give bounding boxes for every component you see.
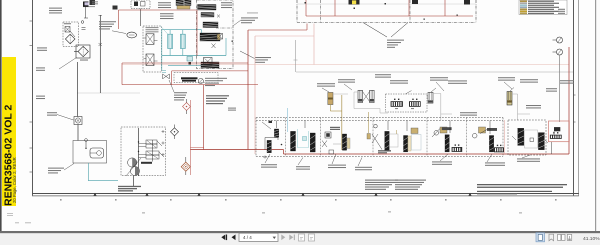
yellow spine strip bbox=[2, 57, 16, 206]
wire faint pink divider bbox=[504, 120, 506, 154]
right margin strip bbox=[596, 0, 600, 231]
label MOTOR OIL TEMPERATURE PLATE bbox=[49, 8, 62, 14]
label HOIST GP bbox=[460, 112, 477, 115]
swing drive motor 2 bbox=[409, 99, 421, 107]
wire gray hook 1 bbox=[380, 109, 388, 114]
pump compensator 1 bbox=[146, 140, 162, 148]
wire red drop x197 bbox=[196, 10, 198, 56]
group7 block bbox=[494, 145, 504, 153]
group6 circle bbox=[434, 131, 439, 136]
teal bowtie marks bbox=[162, 71, 166, 73]
toolbar page input box bbox=[239, 233, 278, 241]
wire olive drop g4 bbox=[368, 112, 370, 133]
part list block 2 bbox=[395, 180, 426, 190]
pump box side ticks bbox=[162, 130, 165, 156]
wire compensator stubs bbox=[139, 144, 147, 158]
frame bottom border bbox=[32, 193, 579, 196]
group5 spool bbox=[404, 136, 408, 152]
accumulator block bbox=[554, 127, 560, 135]
pump dashed box bbox=[121, 127, 166, 176]
ripper marks bbox=[512, 136, 548, 143]
control box glyph 3 bbox=[464, 0, 470, 5]
view mode scroll icon bbox=[567, 234, 571, 240]
label cyl row 9 bbox=[560, 80, 574, 83]
back pressure valve dashed box bbox=[63, 22, 79, 47]
label group4 bbox=[355, 158, 372, 171]
group6 stub bbox=[449, 121, 451, 134]
wire strainer to tank bbox=[77, 125, 79, 141]
wire tan cyl1 bbox=[330, 105, 341, 111]
label group3 bbox=[328, 154, 346, 168]
label ripper bbox=[517, 155, 540, 162]
wire red riser 2 bbox=[190, 85, 203, 150]
group6 tan box bbox=[440, 127, 447, 133]
group1 leader bbox=[262, 121, 272, 129]
label cyl row 1 bbox=[317, 83, 335, 92]
label group2 bbox=[296, 158, 310, 170]
cylinder 4 bbox=[428, 88, 436, 103]
motor circle bbox=[198, 78, 203, 83]
cylinder 5 bbox=[507, 88, 514, 106]
group5 tan box bbox=[411, 128, 418, 134]
main pump circle bbox=[128, 158, 137, 167]
view mode bookmark icon bbox=[549, 234, 554, 241]
glyphs right of cooler bbox=[217, 2, 232, 17]
view mode single page selected bbox=[536, 233, 545, 242]
label cyl row 5 bbox=[430, 77, 448, 91]
svg-text:4 / 4: 4 / 4 bbox=[243, 235, 252, 240]
wire pump drop bbox=[133, 176, 135, 186]
ripper dashed box bbox=[508, 120, 546, 155]
valve bank dashed box bbox=[256, 118, 503, 157]
part list block 1 bbox=[365, 180, 398, 190]
wire faint red supply rail bbox=[122, 64, 569, 66]
label steer text 1 bbox=[205, 78, 227, 86]
label VALVE GP CONTROL PILOT bbox=[241, 17, 258, 23]
label inside box bbox=[64, 23, 71, 24]
wire pump riser bbox=[152, 140, 154, 162]
label in motor box bbox=[181, 77, 198, 81]
ripper light box bbox=[525, 130, 538, 148]
temperature plate component bbox=[83, 0, 95, 7]
check valve diamond black bbox=[171, 125, 179, 140]
cooler valve block 1 bbox=[198, 5, 217, 11]
return filter box bbox=[76, 45, 90, 58]
spine title RENR3568-02 VOL 2 bbox=[2, 104, 14, 206]
accumulator red box bbox=[549, 121, 570, 142]
accumulator ellipse bbox=[127, 32, 137, 38]
label HOSE GP bbox=[526, 105, 541, 108]
motor dashed box bbox=[174, 73, 218, 83]
group5 light col bbox=[408, 135, 421, 152]
accumulator castle bbox=[550, 132, 562, 154]
cooler valve block 4 bbox=[200, 33, 220, 41]
pilot valve spool 1 bbox=[144, 27, 159, 44]
oil cooler dash-dot box bbox=[197, 0, 234, 69]
oil sampling dashed box bbox=[131, 0, 150, 9]
label TANK OIL FL bbox=[47, 112, 57, 115]
toolbar last page button disabled bbox=[289, 235, 295, 241]
leader to filter bbox=[59, 58, 77, 70]
group4 stub bbox=[387, 121, 389, 131]
label 2X small bbox=[228, 108, 236, 111]
group3 cross arrows bbox=[322, 141, 341, 148]
label VALVE GP CONTROL 2X 3X bbox=[387, 40, 404, 48]
wire gauge drop bbox=[559, 55, 561, 122]
group6 leader bbox=[432, 127, 452, 137]
back pressure valve bbox=[65, 27, 70, 33]
wire olive drop g3 bbox=[341, 95, 343, 150]
cooler bypass spool pair bbox=[176, 0, 191, 6]
wire olive drop g6 bbox=[433, 94, 441, 121]
wire gray drop bbox=[294, 40, 298, 72]
toolbar background bbox=[0, 233, 600, 245]
label cyl row 8 bbox=[520, 79, 538, 82]
wire teal link bbox=[202, 30, 227, 56]
frame right border bbox=[573, 0, 579, 196]
label cyl row 6 bbox=[448, 80, 467, 83]
solenoid coil 2 bbox=[180, 30, 185, 49]
wire gray hook 2 bbox=[441, 113, 452, 115]
riser tick X bbox=[99, 16, 103, 47]
toolbar prev button bbox=[232, 235, 236, 241]
wire gray hook 3 bbox=[518, 113, 531, 115]
frame bottom zone triangles bbox=[93, 193, 471, 196]
wire sampling drop bbox=[140, 9, 142, 27]
wire red pilot supply bbox=[119, 10, 198, 29]
pump text block bbox=[118, 186, 141, 192]
temp plate tick marks bbox=[81, 18, 88, 29]
group1 spool upper bbox=[274, 129, 278, 137]
zoom level text bbox=[583, 236, 600, 242]
label cyl row 4 bbox=[390, 80, 408, 83]
x-mark small bbox=[212, 44, 216, 49]
wire filter drop bbox=[77, 62, 79, 117]
group4 light box bbox=[390, 130, 399, 147]
hydraulic tank box bbox=[73, 141, 107, 164]
steer priority x-box bbox=[204, 58, 213, 66]
toolbar back view icon bbox=[299, 234, 305, 241]
wire teal bowtie drop bbox=[161, 56, 163, 71]
cooler valve block 3 bbox=[203, 22, 218, 28]
pilot valve spool 2 bbox=[144, 54, 158, 66]
wire olive drop g7 bbox=[512, 94, 518, 120]
label FLTR GP RET OIL bbox=[37, 47, 47, 50]
solenoid with yellow flag bbox=[349, 0, 360, 9]
pilot valve dashed box bbox=[143, 26, 162, 72]
pressure gauge 1 bbox=[553, 37, 563, 43]
label TANK GP HYDRAULIC bbox=[48, 168, 64, 174]
wire red mid box bbox=[122, 63, 258, 85]
fluid color legend table bbox=[519, 0, 567, 15]
wire red control drops bbox=[306, 0, 445, 16]
leader to accumulator bbox=[112, 31, 126, 34]
label group6 bbox=[432, 154, 452, 165]
group3 left box bbox=[325, 132, 334, 154]
group3 tan bars bbox=[347, 138, 350, 149]
label MOTOR GP PRESSURE bbox=[174, 92, 187, 100]
group4 circles bbox=[372, 124, 382, 149]
wire temp plate stem bbox=[85, 7, 87, 18]
page left dark border bbox=[0, 0, 2, 233]
teal junction block bbox=[187, 57, 193, 65]
group7 stub bbox=[489, 121, 491, 135]
pump outlet bar bbox=[141, 162, 152, 164]
leader tank oil bbox=[57, 115, 74, 121]
group3 label bbox=[330, 127, 340, 130]
group7 circle bbox=[472, 133, 477, 138]
pump compensator 2 bbox=[146, 151, 164, 159]
notes paragraph bbox=[477, 184, 567, 194]
toolbar forward view icon bbox=[309, 234, 315, 241]
wire light blue drop bbox=[287, 108, 289, 132]
pressure gauge 2 bbox=[553, 49, 563, 55]
arrow in box bbox=[70, 31, 75, 37]
solenoid coil 1 bbox=[168, 30, 173, 49]
label OIL COOLER BYPASS VLV bbox=[158, 2, 171, 8]
wire red control rail bbox=[306, 15, 473, 17]
spine footer marks bbox=[7, 213, 13, 216]
group4 spool bbox=[385, 131, 390, 150]
view mode two page icon bbox=[558, 234, 566, 240]
return filter element bbox=[74, 46, 88, 56]
control box glyph 2 bbox=[412, 0, 418, 4]
x-box symbol bbox=[217, 34, 223, 40]
cooler bypass tan body bbox=[177, 6, 190, 10]
leader bbox=[234, 20, 242, 26]
label group1 bbox=[261, 154, 277, 168]
pointer lines bbox=[363, 23, 408, 38]
svg-text:20 Page, Color 2, RENR: 20 Page, Color 2, RENR bbox=[12, 157, 17, 203]
label HOIST small bbox=[546, 88, 557, 91]
group1 marks bbox=[263, 156, 267, 159]
page footer ghost marks bbox=[15, 211, 522, 223]
valve bank dividers bbox=[286, 118, 467, 157]
label (1+2) bbox=[80, 60, 88, 61]
svg-text:41.10%: 41.10% bbox=[583, 236, 600, 242]
strainer box bbox=[74, 117, 82, 125]
wire light red riser bbox=[189, 100, 191, 175]
relief valve diamond red 2 bbox=[181, 157, 190, 175]
group2 spool left bbox=[291, 131, 296, 151]
cooler valve block 5 bbox=[201, 62, 219, 68]
frame left ticks bbox=[30, 21, 33, 172]
small red source block bbox=[113, 6, 118, 10]
toolbar next button disabled bbox=[281, 235, 285, 241]
wire red bottom rail bbox=[190, 150, 569, 155]
wire teal lower bbox=[162, 30, 201, 66]
page bottom shadow bbox=[0, 231, 600, 233]
cooler box divider bbox=[216, 28, 233, 42]
ripper spool 1 bbox=[518, 128, 524, 145]
page right gray divider bbox=[595, 0, 596, 231]
label PILOT bbox=[92, 1, 98, 4]
group2 spool right bbox=[310, 133, 315, 152]
wire pump axis bbox=[138, 128, 139, 176]
wire gray return rail bbox=[296, 71, 573, 73]
relief valve diamond red 1 bbox=[183, 99, 191, 114]
group1 stub bbox=[276, 121, 278, 129]
label FL RET VLV bbox=[36, 96, 45, 99]
wire teal coil bottoms bbox=[162, 49, 226, 56]
steer part list bbox=[206, 95, 229, 104]
cylinder pair 2a bbox=[358, 90, 363, 102]
frame zone numbers bbox=[60, 199, 557, 201]
swing drive motor 1 bbox=[391, 99, 403, 107]
wire faint top bbox=[297, 3, 476, 5]
ripper spool 2 bbox=[538, 133, 544, 150]
toolbar first page button bbox=[221, 235, 227, 241]
label cyl row 2 bbox=[338, 79, 355, 90]
label group7 bbox=[485, 154, 505, 166]
cylinder pair 2b bbox=[354, 90, 380, 108]
label CO2 ghost bbox=[247, 12, 258, 13]
cooler valve block 2 bbox=[201, 13, 214, 18]
group7 leader bbox=[480, 128, 497, 134]
tank breather bbox=[85, 139, 88, 149]
group7 tan box bbox=[479, 127, 486, 133]
group4 glyph bbox=[367, 134, 370, 140]
swing drive dashed box bbox=[386, 94, 428, 112]
control box dividers bbox=[321, 0, 411, 23]
group1 wires bbox=[265, 138, 282, 151]
swing drive marks bbox=[395, 91, 414, 110]
main control dash-dot box bbox=[297, 0, 476, 23]
label FILTER GP CONTROL VLV RETURN bbox=[160, 13, 174, 19]
group4 label bbox=[378, 150, 391, 153]
wire teal pilot top bbox=[162, 29, 202, 31]
second pump circle bbox=[126, 158, 141, 176]
teal label leader bbox=[160, 26, 168, 35]
label VALVE GP CONTROL lower bbox=[255, 57, 271, 63]
label cyl row 3 bbox=[375, 74, 391, 77]
group7 spool bbox=[489, 136, 493, 152]
wire faint gray y93 bbox=[77, 92, 140, 94]
motor leader bbox=[169, 80, 174, 92]
wire red spine top link bbox=[248, 24, 307, 31]
group2 stub bbox=[304, 121, 306, 129]
leader tank bbox=[64, 164, 74, 171]
control box dots bbox=[305, 2, 458, 20]
bowtie valve bbox=[163, 74, 170, 79]
group1 spool lower bbox=[267, 140, 271, 152]
group3 spool bbox=[342, 134, 346, 150]
label FL BYP VLV bbox=[36, 67, 45, 70]
frame left border bbox=[32, 0, 33, 196]
label ACCUMULATOR GP CONTROL VLV bbox=[99, 21, 116, 29]
tank cylinder bbox=[90, 148, 104, 158]
motor red box bbox=[172, 71, 248, 85]
group6 block bbox=[452, 144, 463, 152]
group2 teal loop bbox=[298, 129, 309, 148]
wire faint red spine bbox=[255, 24, 314, 155]
filter element F1 bbox=[65, 34, 75, 44]
spine subtitle bbox=[12, 157, 17, 203]
frame right ticks bbox=[573, 95, 576, 122]
wire riser x100 bbox=[99, 15, 101, 93]
cylinder tan 1 bbox=[328, 92, 348, 104]
wire teal suction bbox=[88, 163, 118, 181]
label cyl row 7 bbox=[498, 77, 515, 89]
leader 2 bbox=[240, 51, 255, 59]
group5 stub bbox=[406, 121, 408, 132]
group6 spool bbox=[445, 135, 449, 152]
wire red spine main bbox=[247, 30, 249, 150]
wire red right edge bbox=[568, 47, 570, 154]
